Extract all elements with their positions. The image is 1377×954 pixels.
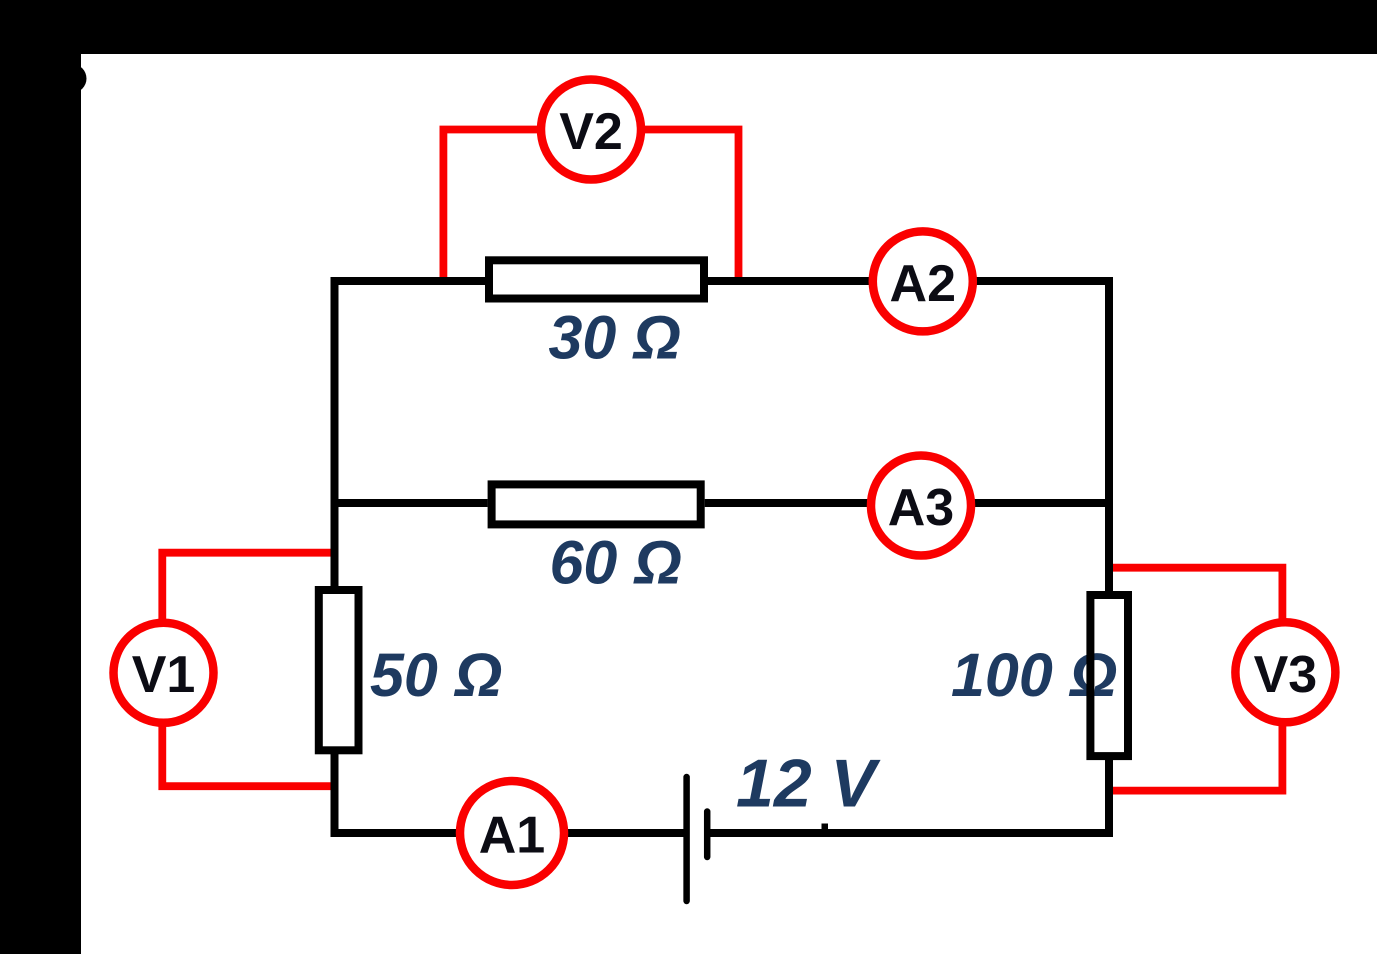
svg-text:50 Ω: 50 Ω [370, 641, 502, 709]
voltmeter V1 [114, 623, 214, 723]
ammeter A3 [871, 456, 971, 556]
svg-text:12 V: 12 V [736, 746, 882, 822]
svg-text:V2: V2 [559, 103, 623, 161]
voltmeter V2 [541, 80, 641, 180]
wire: top branch left segment [331, 277, 486, 285]
wire: top branch right segment [708, 277, 1113, 285]
svg-text:A3: A3 [888, 479, 954, 537]
wire: left vertical lower segment [331, 754, 339, 837]
resistor R 30 ohm [489, 260, 704, 298]
red wire loop of voltmeter V3 [1110, 568, 1282, 791]
wire: bottom left segment [331, 829, 688, 837]
battery short plate [704, 812, 711, 858]
svg-text:A1: A1 [479, 807, 545, 865]
wire: right vertical upper segment [1105, 277, 1113, 591]
resistor R 60 ohm [492, 484, 701, 524]
svg-text:60 Ω: 60 Ω [550, 529, 682, 597]
black left column [0, 0, 81, 954]
wire: bottom right segment [707, 829, 1113, 837]
voltmeter V3 [1235, 622, 1335, 722]
wire: right vertical lower segment [1105, 760, 1113, 837]
resistor R 100 ohm [1090, 595, 1128, 756]
svg-text:30 Ω: 30 Ω [549, 304, 681, 372]
svg-text:A2: A2 [890, 255, 956, 313]
black top bar [0, 0, 1377, 54]
resistor R 50 ohm [319, 590, 359, 750]
wire: middle branch right segment [705, 499, 1113, 507]
battery long plate [683, 777, 690, 901]
wire: left vertical upper segment [331, 277, 339, 587]
junction nub on bottom wire [822, 824, 829, 832]
svg-text:V3: V3 [1254, 646, 1318, 704]
cropped glyph bump on left column [58, 64, 87, 93]
ammeter A2 [873, 231, 973, 331]
wire: middle branch left segment [331, 499, 488, 507]
red wire loop of voltmeter V1 [162, 553, 333, 787]
svg-text:V1: V1 [132, 646, 196, 704]
red wire loop of voltmeter V2 [443, 130, 738, 280]
ammeter A1 [460, 781, 564, 885]
